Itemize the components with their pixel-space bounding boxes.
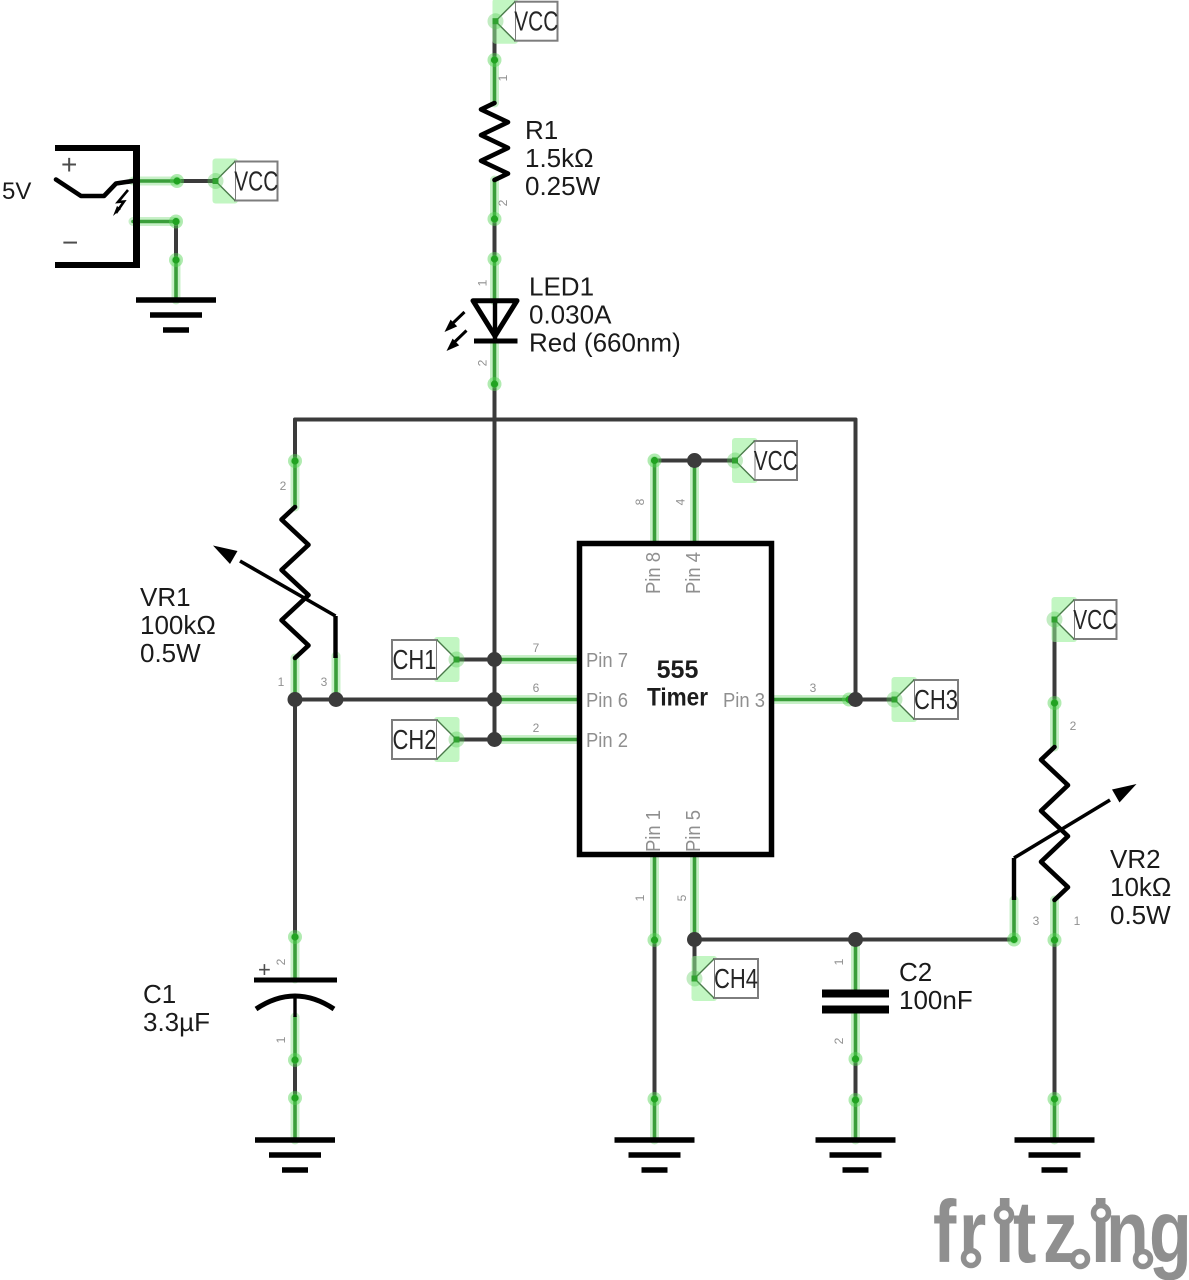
svg-text:3.3µF: 3.3µF [143, 1007, 210, 1037]
ground GND3 [615, 1140, 695, 1170]
fritzing watermark [933, 1182, 1189, 1280]
wire C2 pin 2 to ground [854, 1059, 858, 1100]
svg-text:VCC: VCC [1073, 604, 1117, 635]
wire VR1 pin 1 to Pin 6 node [295, 698, 495, 702]
pin lead VR1.1 [291, 658, 300, 700]
terminal battery - [169, 215, 183, 229]
svg-text:CH3: CH3 [914, 684, 958, 715]
op-amp U1 555 Timer IC body [580, 544, 772, 855]
node VR1.1 junction [288, 692, 303, 707]
pin lead battery - [133, 217, 176, 226]
svg-text:2: 2 [1070, 719, 1077, 733]
terminal GND4 [849, 1093, 863, 1107]
terminal R1.1 [488, 53, 502, 67]
pin lead battery + [133, 177, 177, 186]
terminal VR2.1 [1048, 933, 1062, 947]
label LED1 value [529, 272, 681, 358]
svg-text:R1: R1 [525, 115, 558, 145]
wire vertical run down to Pin 3 node [854, 420, 858, 700]
svg-text:0.5W: 0.5W [1110, 900, 1171, 930]
svg-text:VCC: VCC [514, 6, 558, 37]
ground GND5 [1015, 1140, 1095, 1170]
label U1 555 Timer [647, 656, 708, 712]
svg-text:1: 1 [274, 1036, 288, 1043]
svg-text:100nF: 100nF [899, 985, 973, 1015]
svg-text:Pin 8: Pin 8 [643, 552, 665, 594]
terminal VR1.2 [288, 454, 302, 468]
svg-text:CH2: CH2 [393, 724, 437, 755]
svg-text:Pin 3: Pin 3 [723, 690, 765, 712]
capacitor C1 (electrolytic) [254, 957, 337, 1017]
svg-text:C1: C1 [143, 979, 176, 1009]
svg-text:2: 2 [832, 1037, 846, 1044]
ground GND1 [136, 300, 216, 330]
wire VR1 pin 1 down to C1 pin 2 [293, 700, 297, 938]
pin lead VR2.1 [1050, 900, 1059, 940]
svg-text:2: 2 [533, 721, 540, 735]
label VR1 value [140, 582, 216, 668]
wire Pin 3 to CH3 flag [849, 698, 895, 702]
svg-text:3: 3 [321, 675, 328, 689]
pin lead R1.2 [490, 180, 499, 219]
svg-text:100kΩ: 100kΩ [140, 610, 216, 640]
svg-text:i: i [995, 1182, 1014, 1280]
svg-text:5: 5 [675, 894, 689, 901]
wire battery plus to VCC flag [177, 179, 216, 183]
resistor R1 [481, 103, 508, 180]
pin lead C1.1 [291, 1017, 300, 1060]
svg-text:1: 1 [832, 958, 846, 965]
pin lead LED1.1 [490, 259, 499, 301]
wire CH2 flag to Pin 2 node [457, 738, 495, 742]
terminal GND1 [169, 253, 183, 267]
pin lead U1 pin 1 [650, 858, 659, 940]
svg-text:3: 3 [810, 681, 817, 695]
LED LED1 [445, 301, 518, 351]
svg-text:10kΩ: 10kΩ [1110, 872, 1171, 902]
ground GND2 [255, 1140, 335, 1170]
net flag CH4 [687, 956, 759, 1001]
svg-text:CH4: CH4 [714, 963, 758, 994]
wire corner down to VR1 pin 2 [293, 420, 297, 462]
svg-text:2: 2 [280, 479, 287, 493]
svg-text:1: 1 [633, 894, 647, 901]
svg-text:2: 2 [274, 958, 288, 965]
net flag CH2 [392, 717, 465, 762]
wire VCC flag to R1 pin 1 [493, 21, 497, 60]
power flag VCC (VR2) [1047, 597, 1118, 642]
svg-text:6: 6 [533, 681, 540, 695]
terminal C1.1 [288, 1053, 302, 1067]
label VR2 value [1110, 844, 1171, 930]
wire VR1 pin 2 to 555 Pin 3 (horizontal run) [295, 418, 856, 422]
svg-text:VCC: VCC [234, 166, 278, 197]
terminal GND5 [1048, 1092, 1062, 1106]
node Pin6 junction [487, 692, 502, 707]
wire Pin 5 node to VR2 pin 3 [695, 938, 1015, 942]
terminal VR2.2 [1048, 696, 1062, 710]
battery J1 5V [55, 145, 140, 268]
node Pin5/CH4 junction [687, 932, 702, 947]
terminal C2.2 [849, 1052, 863, 1066]
power flag VCC (top) [488, 0, 559, 44]
potentiometer VR1 [213, 507, 336, 658]
pin lead C1.2 [291, 937, 300, 979]
terminal GND2 [288, 1091, 302, 1105]
svg-text:1.5kΩ: 1.5kΩ [525, 143, 594, 173]
wire VR2 pin 1 down to ground [1053, 940, 1057, 1099]
svg-text:1: 1 [278, 675, 285, 689]
node Pin2/CH2 junction [487, 732, 502, 747]
wire R1 pin 2 to LED1 pin 1 [493, 219, 497, 259]
pin lead U1 pin 4 [690, 461, 699, 542]
wire CH1 flag to Pin 7 node [457, 658, 495, 662]
pin lead R1.1 [490, 60, 499, 103]
pin lead LED1.2 [490, 343, 499, 384]
pin lead C2.2 [851, 1013, 860, 1059]
svg-text:Timer: Timer [647, 684, 708, 712]
pin lead U1 pin 8 [650, 461, 659, 542]
svg-text:7: 7 [533, 641, 540, 655]
svg-text:VR2: VR2 [1110, 844, 1161, 874]
wire battery minus to ground [174, 222, 178, 261]
capacitor C2 [822, 994, 889, 1010]
label C2 value [899, 957, 973, 1015]
svg-text:C2: C2 [899, 957, 932, 987]
svg-text:Red (660nm): Red (660nm) [529, 328, 681, 358]
svg-text:t: t [1013, 1182, 1036, 1280]
terminal U1 pin8 [648, 454, 662, 468]
pin lead ground GND5 [1050, 1099, 1059, 1140]
pin lead U1 pin 3 [772, 695, 849, 704]
pin lead VR1.2 [291, 461, 300, 507]
svg-text:f: f [933, 1182, 957, 1280]
terminal GND3 [648, 1092, 662, 1106]
svg-text:VR1: VR1 [140, 582, 191, 612]
pin lead U1 pin 5 [690, 858, 699, 940]
pin lead VR1.3 [332, 656, 341, 700]
svg-text:+: + [61, 149, 77, 180]
label C1 value [143, 979, 210, 1037]
pin lead VR2.3 [1010, 900, 1019, 940]
svg-text:1: 1 [496, 74, 510, 81]
svg-text:g: g [1149, 1182, 1189, 1280]
svg-text:CH1: CH1 [393, 644, 437, 675]
node Pin4/VCC junction [687, 453, 702, 468]
svg-text:555: 555 [657, 656, 699, 684]
node Pin3/CH3 junction [848, 692, 863, 707]
wire Pin 5 node to CH4 flag [693, 940, 697, 979]
svg-text:−: − [62, 227, 78, 258]
svg-text:2: 2 [496, 199, 510, 206]
terminal C1.2 [288, 930, 302, 944]
svg-text:5V: 5V [2, 178, 31, 205]
svg-text:LED1: LED1 [529, 272, 594, 302]
svg-text:VCC: VCC [754, 445, 798, 476]
wire U1 pin 8 to VCC flag [655, 459, 736, 463]
svg-text:Pin 4: Pin 4 [683, 552, 705, 594]
svg-text:1: 1 [1074, 914, 1081, 928]
pin lead ground GND2 [291, 1098, 300, 1140]
svg-text:4: 4 [674, 498, 688, 505]
pin lead U1 pin 2 [497, 735, 577, 744]
svg-text:Pin 1: Pin 1 [643, 810, 665, 852]
terminal LED1.2 [488, 377, 502, 391]
terminal VR2.3 [1007, 933, 1021, 947]
svg-text:0.25W: 0.25W [525, 171, 601, 201]
svg-text:Pin 2: Pin 2 [586, 730, 628, 752]
svg-text:3: 3 [1033, 914, 1040, 928]
svg-text:2: 2 [476, 359, 490, 366]
node C2 junction [848, 932, 863, 947]
svg-text:Pin 6: Pin 6 [586, 690, 628, 712]
pin lead U1 pin 7 [497, 655, 577, 664]
power flag VCC (battery) [208, 159, 279, 204]
net flag CH3 [887, 677, 959, 722]
wire VCC flag to VR2 pin 2 [1053, 620, 1057, 704]
svg-text:8: 8 [633, 498, 647, 505]
svg-text:+: + [258, 957, 271, 982]
svg-text:Pin 5: Pin 5 [683, 810, 705, 852]
pin lead C2.1 [851, 940, 860, 991]
wire Pin 7 node to Pin 2 node [493, 660, 497, 740]
node Pin7/CH1/LED junction [487, 652, 502, 667]
pin lead ground GND1 [172, 260, 181, 300]
terminal battery + [170, 174, 184, 188]
terminal R1.2 [488, 212, 502, 226]
svg-text:Pin 7: Pin 7 [586, 650, 628, 672]
pin lead U1 pin 6 [497, 695, 577, 704]
svg-text:0.030A: 0.030A [529, 300, 612, 330]
net flag CH1 [392, 637, 465, 682]
pin lead VR2.2 [1050, 703, 1059, 747]
node VR1.3 junction [329, 692, 344, 707]
potentiometer VR2 [1014, 747, 1137, 900]
wire C1 pin 1 to ground [293, 1060, 297, 1098]
terminal U1 pin3 [842, 693, 856, 707]
terminal LED1.1 [488, 252, 502, 266]
wire LED1 pin 2 down to Pin 7 node [493, 384, 497, 660]
pin lead ground GND3 [650, 1099, 659, 1140]
wire 555 Pin 1 down to ground [653, 940, 657, 1099]
terminal U1 pin1 [648, 933, 662, 947]
ground GND4 [816, 1140, 896, 1170]
svg-text:1: 1 [476, 279, 490, 286]
pin lead ground GND4 [851, 1100, 860, 1140]
label R1 value [525, 115, 601, 201]
svg-text:0.5W: 0.5W [140, 638, 201, 668]
power flag VCC (555) [727, 438, 798, 483]
